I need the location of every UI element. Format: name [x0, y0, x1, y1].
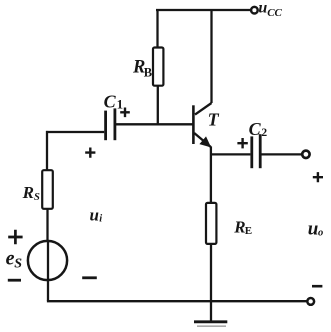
capacitor C1 right plate [114, 108, 117, 140]
transistor T base bar [192, 105, 195, 144]
source eS circle [28, 241, 67, 280]
transistor T collector slant [195, 103, 212, 115]
wire emitter horizontal [211, 153, 250, 155]
plus sign above eS [8, 230, 22, 244]
plus sign output top [313, 172, 323, 182]
transistor T emitter slant [194, 133, 211, 147]
wire input to C1 [46, 131, 104, 133]
source eS internal line / wire through [47, 241, 49, 301]
plus sign under input wire [85, 148, 95, 158]
minus sign below eS [8, 279, 21, 282]
wire emitter vertical [210, 147, 212, 204]
wire RB top [156, 10, 158, 48]
svg-text:e: e [6, 247, 15, 269]
svg-text:S: S [34, 192, 40, 203]
plus sign near C1 top [120, 108, 130, 118]
svg-text:u: u [308, 218, 319, 239]
terminal uCC [251, 7, 258, 14]
svg-text:C: C [104, 91, 117, 111]
terminal output top [302, 151, 309, 158]
transistor T emitter arrowhead [200, 137, 210, 146]
terminal output bottom [307, 298, 314, 305]
svg-text:u: u [90, 206, 99, 225]
ground bar shadow [197, 325, 226, 327]
wire bottom rail [47, 300, 308, 302]
wire base [116, 123, 193, 125]
svg-text:R: R [233, 217, 245, 236]
wire RB bottom [157, 86, 159, 125]
svg-text:o: o [318, 228, 323, 239]
minus sign right of eS [82, 276, 97, 279]
capacitor C2 right plate [259, 134, 262, 168]
wire C2 to output [262, 153, 302, 155]
resistor RS body [42, 170, 53, 209]
svg-text:T: T [208, 110, 220, 130]
svg-text:R: R [22, 183, 34, 202]
wire collector vertical [210, 10, 212, 103]
svg-text:i: i [99, 214, 102, 225]
capacitor C2 left plate [250, 136, 253, 168]
minus sign output bottom [312, 285, 322, 288]
svg-text:E: E [245, 225, 252, 237]
svg-text:S: S [14, 257, 22, 272]
svg-text:CC: CC [267, 7, 282, 19]
svg-text:u: u [258, 0, 267, 17]
svg-text:C: C [249, 119, 262, 139]
svg-text:B: B [144, 66, 152, 80]
resistor RE body [206, 203, 216, 244]
wire RE bottom [210, 244, 212, 322]
wire RS to source [46, 209, 48, 241]
svg-text:1: 1 [117, 97, 124, 112]
resistor RB body [153, 48, 163, 86]
wire top rail [156, 9, 251, 11]
wire input corner vertical [46, 131, 48, 170]
svg-text:2: 2 [261, 127, 267, 139]
plus sign left of C2 [237, 138, 247, 148]
ground bar [194, 320, 227, 323]
capacitor C1 left plate [104, 111, 107, 141]
